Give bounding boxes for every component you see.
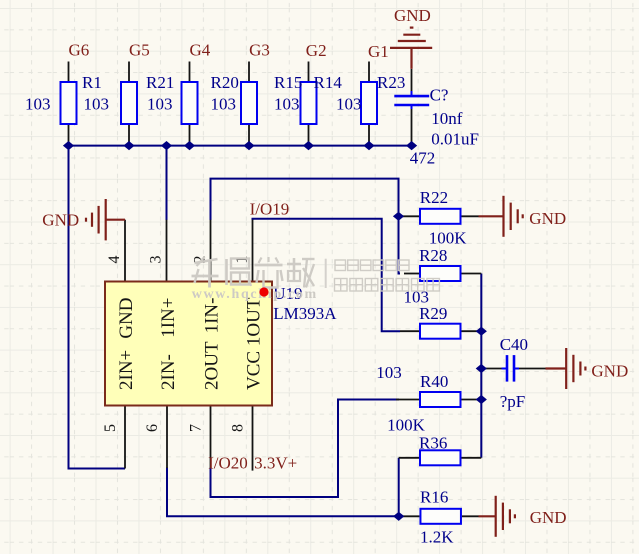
- power GND symbol left (at IC pin 4): [86, 199, 125, 240]
- IC pin 6: [166, 406, 168, 469]
- capacitor C40 leads: [481, 368, 545, 370]
- wire: pin 6 net to R16: [167, 468, 399, 517]
- resistor R14: [301, 82, 317, 124]
- svg-text:G3: G3: [249, 40, 270, 59]
- junction at 398.5,216.3: [393, 212, 404, 221]
- svg-text:?pF: ?pF: [500, 392, 526, 411]
- svg-text:6: 6: [144, 424, 161, 432]
- junction at 68.5,145.6: [63, 141, 74, 150]
- junction at 369,145.6: [363, 141, 374, 150]
- watermark big hanzi blocks: [192, 257, 315, 288]
- svg-text:1IN+: 1IN+: [158, 298, 179, 338]
- svg-text:1OUT: 1OUT: [244, 297, 265, 346]
- svg-text:100K: 100K: [429, 229, 468, 248]
- IC pin 3: [166, 220, 168, 282]
- svg-text:I/O19: I/O19: [250, 200, 290, 219]
- svg-text:5: 5: [102, 424, 119, 432]
- svg-text:GND: GND: [530, 508, 567, 527]
- svg-text:1.2K: 1.2K: [420, 528, 454, 547]
- pins of resistor bank (vertical stubs): [69, 62, 370, 146]
- svg-text:GND: GND: [529, 209, 566, 228]
- svg-text:R29: R29: [419, 304, 447, 323]
- svg-text:G2: G2: [306, 41, 327, 60]
- pins of R29: [400, 330, 481, 332]
- pins of R36: [399, 457, 482, 459]
- svg-text:R15: R15: [274, 73, 302, 92]
- svg-text:2OUT: 2OUT: [202, 341, 223, 390]
- watermark small hanzi line 2: [335, 279, 440, 292]
- capacitor C40: [502, 355, 520, 382]
- svg-text:GND: GND: [116, 298, 137, 339]
- pins of R40: [396, 399, 481, 401]
- svg-text:103: 103: [274, 95, 300, 114]
- svg-text:www.hqchip.com: www.hqchip.com: [192, 287, 317, 302]
- svg-text:472: 472: [410, 149, 436, 168]
- junction at 308.5,145.6: [303, 141, 314, 150]
- wire: R36 drop to R16 net: [398, 458, 400, 517]
- svg-text:C?: C?: [430, 86, 449, 105]
- svg-text:G6: G6: [69, 40, 90, 59]
- svg-text:C40: C40: [500, 335, 528, 354]
- svg-text:R23: R23: [377, 73, 405, 92]
- svg-text:GND: GND: [42, 211, 79, 230]
- svg-text:R36: R36: [419, 433, 447, 452]
- resistor R36: [420, 450, 461, 465]
- pins of R28: [404, 273, 481, 275]
- junction at 481.3,331.2: [476, 327, 487, 336]
- resistor R16: [420, 509, 461, 524]
- resistor R20: [182, 82, 198, 124]
- svg-text:2IN-: 2IN-: [158, 354, 179, 390]
- wire: bus left drop down to pin 5: [69, 146, 126, 469]
- resistor R29: [420, 324, 461, 339]
- junction at 411.6,145.6: [406, 141, 417, 150]
- IC pin 7: [210, 406, 212, 469]
- wire: net I/O19 pin 1 to R29: [253, 219, 401, 332]
- wire: pin 2 net to R22/R28: [211, 179, 401, 274]
- svg-text:G4: G4: [190, 40, 211, 59]
- resistor R40: [420, 392, 461, 407]
- wire: GND bus under pull-down resistor bank: [69, 145, 412, 147]
- svg-text:R1: R1: [82, 73, 102, 92]
- svg-text:100K: 100K: [387, 416, 426, 435]
- svg-text:R20: R20: [211, 73, 239, 92]
- svg-text:R28: R28: [419, 246, 447, 265]
- IC pin 1: [252, 220, 254, 282]
- resistor R1: [61, 82, 77, 124]
- svg-text:3: 3: [148, 256, 165, 264]
- svg-text:103: 103: [376, 363, 402, 382]
- watermark divider: [325, 259, 327, 288]
- svg-text:103: 103: [147, 95, 173, 114]
- junction at 166.5,145.6: [161, 141, 172, 150]
- svg-text:R21: R21: [146, 73, 174, 92]
- wire: right vertical bus R28-R29-C40-R40-R36: [480, 274, 482, 458]
- svg-text:4: 4: [106, 256, 123, 264]
- junction at 481.3,399.5: [476, 395, 487, 404]
- svg-text:R22: R22: [420, 188, 448, 207]
- svg-text:GND: GND: [591, 361, 628, 380]
- power GND symbol right of R16: [479, 496, 515, 537]
- svg-text:LM393A: LM393A: [273, 304, 337, 323]
- svg-text:8: 8: [230, 424, 247, 432]
- IC pin 5: [124, 406, 126, 469]
- watermark small hanzi line 1: [335, 260, 409, 271]
- svg-text:103: 103: [336, 95, 362, 114]
- svg-text:3.3V+: 3.3V+: [254, 454, 297, 473]
- svg-text:7: 7: [188, 424, 205, 432]
- svg-text:G1: G1: [368, 42, 389, 61]
- svg-text:103: 103: [84, 95, 110, 114]
- IC pin 2: [210, 220, 212, 282]
- svg-text:103: 103: [211, 95, 237, 114]
- svg-text:R40: R40: [420, 372, 448, 391]
- resistor R15: [241, 82, 257, 124]
- svg-text:I/O20: I/O20: [208, 454, 248, 473]
- pins of R22: [399, 215, 479, 217]
- resistor R23: [361, 82, 377, 124]
- junction at 189.5,145.6: [184, 141, 195, 150]
- svg-text:R16: R16: [420, 487, 448, 506]
- part selection red dot: [259, 287, 268, 296]
- svg-text:10nf: 10nf: [431, 109, 463, 128]
- IC pin 4: [124, 220, 126, 282]
- svg-text:G5: G5: [129, 40, 150, 59]
- power GND symbol right of R22: [479, 196, 523, 237]
- wire: bus to pin 3: [166, 146, 168, 220]
- junction at 129,145.6: [123, 141, 134, 150]
- capacitor C? leads: [411, 69, 413, 146]
- junction at 481.3,368.5: [476, 364, 487, 373]
- resistor R22: [420, 209, 461, 224]
- junction at 249,145.6: [243, 141, 254, 150]
- power GND symbol right of C40: [546, 348, 586, 389]
- svg-text:GND: GND: [394, 6, 431, 25]
- pins of R16: [399, 515, 479, 517]
- svg-text:103: 103: [25, 95, 51, 114]
- svg-text:VCC: VCC: [244, 351, 265, 390]
- svg-text:1IN-: 1IN-: [202, 298, 223, 334]
- svg-text:2IN+: 2IN+: [116, 350, 137, 390]
- resistor R28: [420, 266, 461, 281]
- IC pin 8 (3.3V+): [252, 406, 254, 471]
- power GND symbol top (inverted, above C?): [390, 28, 432, 69]
- wire: pin 7 net to R40: [211, 400, 400, 498]
- op-amp U19 LM393A body: [105, 282, 272, 406]
- junction at 398.7,516.3: [393, 512, 404, 521]
- svg-text:0.01uF: 0.01uF: [431, 130, 479, 149]
- resistor R21: [121, 82, 137, 124]
- svg-text:R14: R14: [314, 73, 343, 92]
- capacitor C?: [394, 91, 429, 109]
